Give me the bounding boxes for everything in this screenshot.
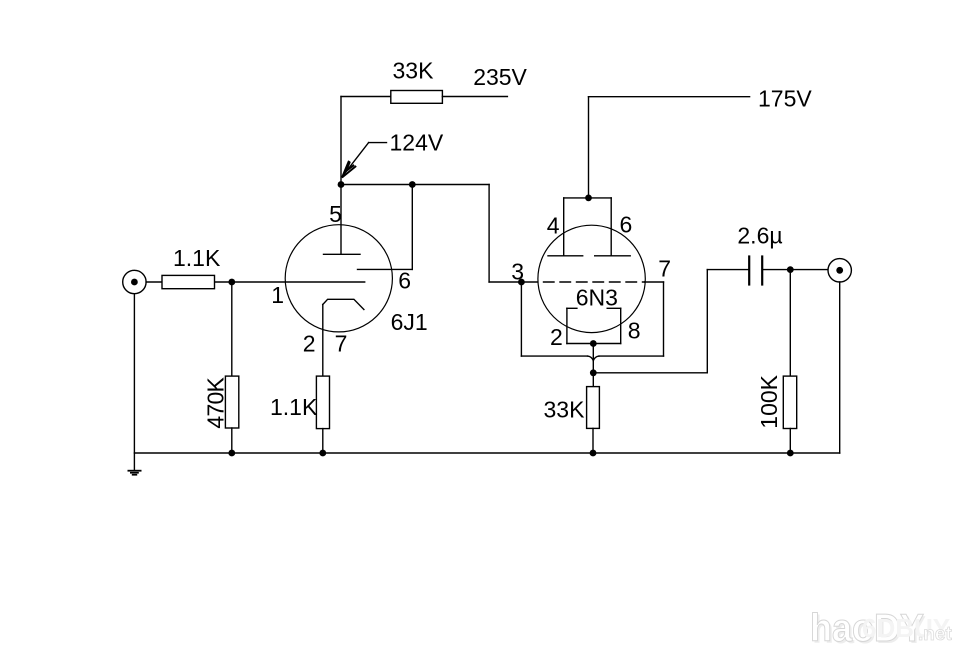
svg-text:1.1K: 1.1K [173, 245, 221, 271]
svg-text:2: 2 [550, 324, 563, 350]
svg-text:100K: 100K [756, 374, 782, 428]
svg-text:6N3: 6N3 [576, 284, 618, 310]
svg-text:175V: 175V [758, 86, 812, 112]
svg-text:1: 1 [271, 282, 284, 308]
svg-text:33K: 33K [544, 396, 586, 422]
svg-text:235V: 235V [473, 64, 527, 90]
svg-text:7: 7 [658, 256, 671, 282]
svg-text:1.1K: 1.1K [270, 394, 318, 420]
svg-text:3: 3 [511, 259, 524, 285]
svg-text:6: 6 [620, 212, 633, 238]
svg-text:7: 7 [335, 331, 348, 357]
svg-text:2: 2 [303, 331, 316, 357]
svg-text:8: 8 [628, 318, 641, 344]
svg-text:4: 4 [547, 213, 560, 239]
svg-text:33K: 33K [393, 57, 435, 83]
svg-text:5: 5 [329, 201, 342, 227]
svg-text:124V: 124V [390, 130, 444, 156]
svg-text:2.6µ: 2.6µ [737, 223, 782, 249]
svg-text:.net: .net [918, 624, 952, 645]
svg-text:6J1: 6J1 [391, 309, 428, 335]
svg-text:6: 6 [398, 267, 411, 293]
svg-text:470K: 470K [202, 376, 228, 428]
